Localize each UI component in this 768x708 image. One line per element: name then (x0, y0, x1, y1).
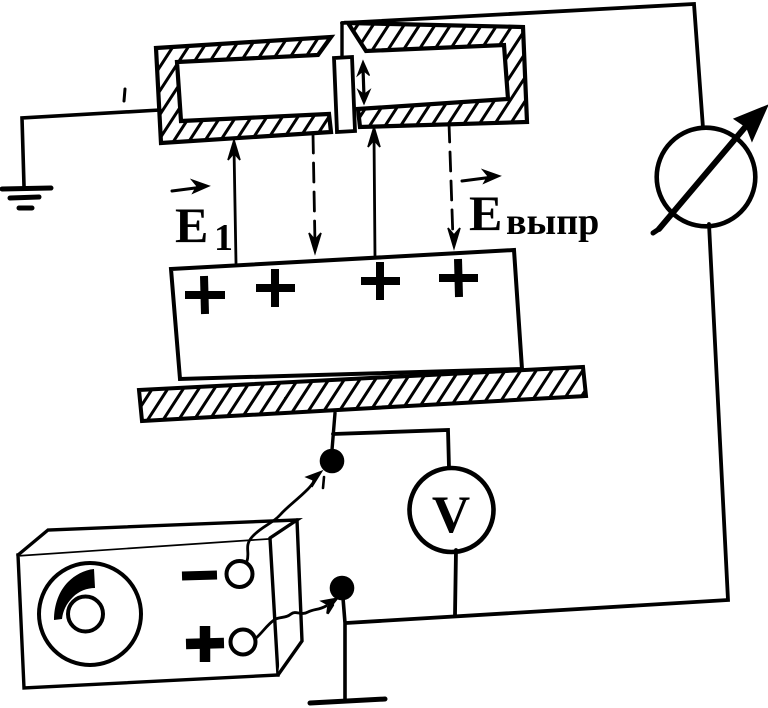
plus charge 4 (439, 259, 478, 297)
field arrow down (dashed, right) (448, 123, 460, 248)
left fixed plate (hatched C-frame) (156, 37, 331, 143)
wire: branch to voltmeter (333, 430, 449, 468)
voltmeter (410, 468, 494, 552)
svg-text:1: 1 (214, 217, 233, 259)
right fixed plate (hatched C-frame) (348, 23, 527, 127)
plus charge 2 (256, 269, 295, 307)
plus sign (186, 626, 224, 662)
field arrow down (dashed, left) (309, 134, 321, 253)
wire: ground lead to left plate (22, 110, 160, 186)
node 1 (320, 449, 345, 474)
wire: node 2 down to bottom ground (343, 598, 345, 701)
knob outer (39, 563, 141, 665)
wire: voltmeter to bottom wire (455, 550, 456, 615)
svg-text:выпр: выпр (506, 201, 599, 243)
vibration double arrow (358, 61, 371, 104)
wire: vibrating plate to top lead (340, 23, 343, 57)
galvanometer (meter with arrow) (657, 128, 756, 227)
svg-text:E: E (469, 185, 502, 241)
knob pointer arc (54, 569, 95, 620)
plus charge 3 (361, 262, 400, 300)
power supply box (18, 520, 302, 688)
node 2 (330, 576, 355, 601)
ground (bottom) (310, 699, 385, 703)
plus charge 1 (185, 276, 225, 314)
label E_vypr vector arrow (462, 170, 500, 183)
label E1 with vector arrow (172, 180, 209, 193)
grounded base bar (hatched) (139, 367, 586, 421)
wire: minus terminal to node 1 (wavy with arrow) (247, 471, 324, 561)
wire: top lead to galvanometer (342, 4, 703, 128)
plus terminal (231, 630, 256, 655)
wire: plus terminal to node 2 (wavy with arrow) (256, 598, 338, 638)
wire: galvanometer to bottom-right corner (346, 224, 728, 623)
field arrow up (solid, middle) (368, 127, 380, 258)
charged plate with + signs (171, 250, 522, 379)
minus terminal (227, 561, 253, 587)
field arrow E1 up (solid) (228, 140, 240, 263)
minus sign (182, 575, 217, 576)
svg-text:V: V (432, 486, 470, 544)
knob inner (68, 597, 103, 632)
ground (left) (2, 188, 51, 208)
tick mark above ground wire (124, 89, 125, 101)
vibrating plate (334, 57, 355, 132)
wire: base bar to node 1 (332, 413, 335, 450)
svg-text:E: E (175, 197, 208, 253)
